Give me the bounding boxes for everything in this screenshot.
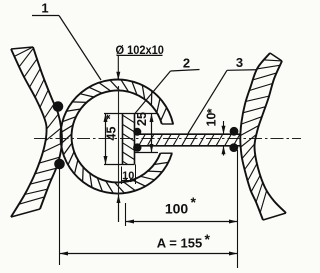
- svg-text:*: *: [191, 194, 197, 210]
- left crescent bottom end cut: [11, 209, 40, 217]
- dim 10 ext lines: [121, 167, 123, 185]
- svg-text:10: 10: [122, 170, 134, 182]
- right shell crescent inner edge: [240, 53, 270, 220]
- dim 100 ext line left: [125, 203, 127, 226]
- svg-text:1: 1: [41, 1, 48, 16]
- right shell crescent outer edge: [254, 61, 286, 213]
- ext line right (shared): [237, 150, 239, 268]
- pipe wall hatching: [61, 80, 169, 194]
- leader 1: [59, 16, 101, 81]
- left shell crescent inner edge: [33, 47, 62, 209]
- left crescent top end cut: [11, 47, 33, 49]
- svg-text:100: 100: [165, 201, 189, 217]
- diameter arrow top: [116, 72, 120, 81]
- pipe slot upper cap: [162, 123, 174, 125]
- right crescent bottom end cut: [263, 213, 286, 220]
- svg-text:25: 25: [135, 112, 149, 126]
- svg-text:10: 10: [205, 113, 219, 127]
- svg-text:A = 155: A = 155: [157, 236, 202, 251]
- weld dot right upper: [230, 127, 239, 136]
- dim 45 extension bottom: [104, 164, 135, 166]
- dim 25 bottom tick: [135, 152, 159, 154]
- ext line left: [59, 166, 61, 265]
- dim 45 line: [105, 114, 107, 165]
- left crescent hatching: [13, 46, 64, 205]
- diameter arrow bottom: [118, 195, 120, 222]
- horizontal centerline: [34, 138, 301, 140]
- dim 10 line: [122, 180, 136, 182]
- left shell crescent outer edge: [11, 49, 47, 217]
- weld dot plate top: [133, 128, 141, 136]
- dim 25 line: [151, 114, 153, 153]
- svg-text:3: 3: [236, 55, 243, 70]
- leader 2: [135, 71, 171, 114]
- right crescent hatching: [239, 60, 284, 215]
- dim 10* line lower: [223, 146, 225, 156]
- pipe inner wall circle: [72, 90, 162, 182]
- vertical plate item 2: [122, 114, 124, 165]
- horizontal plate item 3: [135, 133, 241, 135]
- leader 3: [188, 70, 227, 133]
- weld dot plate bottom: [133, 143, 141, 151]
- weld dot right lower: [229, 143, 238, 152]
- dim 10* line upper: [223, 121, 225, 134]
- svg-text:45: 45: [105, 127, 119, 141]
- weld dot left lower: [54, 159, 65, 170]
- pipe slot lower cap: [160, 152, 172, 154]
- vertical centerline: [118, 86, 120, 222]
- dim A line: [60, 253, 238, 255]
- pipe outer wall circle: [60, 80, 173, 194]
- svg-text:2: 2: [183, 56, 190, 71]
- dim 45 extension top: [104, 113, 158, 115]
- svg-text:*: *: [205, 231, 211, 247]
- weld dot left upper: [53, 101, 64, 112]
- right crescent top end cut: [270, 53, 282, 61]
- dim 100 line: [126, 221, 238, 223]
